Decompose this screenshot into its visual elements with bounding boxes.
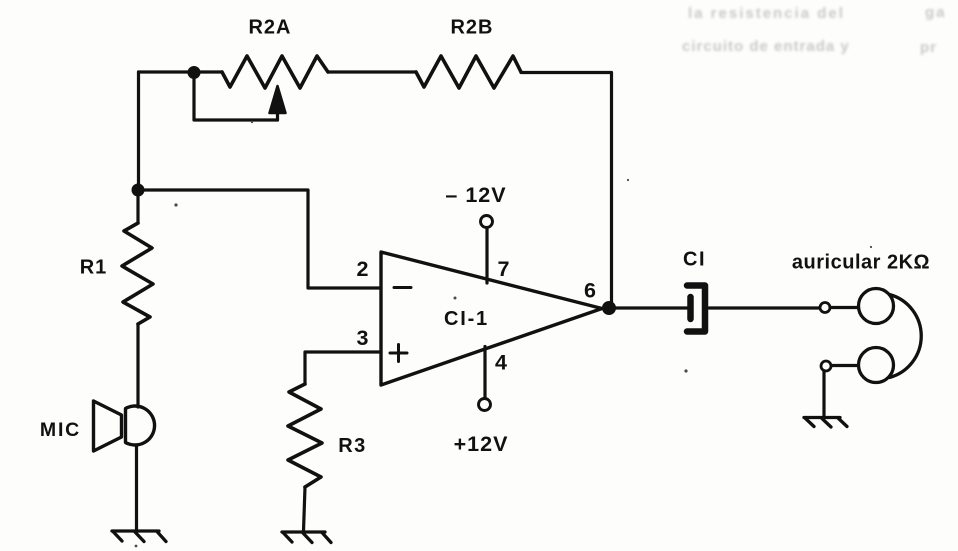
op-amp inverting input minus sign (394, 286, 411, 289)
resistor R2B (416, 56, 521, 88)
op-amp non-inverting input plus sign (390, 345, 407, 362)
resistor R1 (122, 223, 153, 324)
R2A wiper arrow (270, 86, 286, 120)
svg-text:7: 7 (498, 257, 510, 281)
svg-text:3: 3 (357, 326, 369, 350)
wire: terminal down to ground (822, 371, 825, 418)
op-amp CI-1 triangle (381, 252, 602, 385)
svg-text:R2B: R2B (450, 17, 493, 39)
resistor R3 (288, 384, 322, 487)
svg-text:la resistencia del: la resistencia del (688, 5, 845, 22)
svg-text:ga: ga (925, 4, 947, 21)
wire: CI to headphone jack terminal (709, 306, 820, 309)
wire: pin 3 stub, left and down to R3 top (305, 352, 381, 384)
potentiometer R2A resistor body (222, 56, 328, 88)
wire: node A down to R1 top (136, 190, 139, 223)
svg-text:2: 2 (357, 257, 369, 281)
capacitor CI: curved right plate (bracket) (687, 286, 705, 332)
ground (below R3) (282, 532, 331, 543)
svg-text:pr: pr (920, 39, 937, 56)
wire: top feedback horizontal, node to R2A left terminal (139, 70, 223, 73)
wire: bottom earpiece to terminal (831, 364, 858, 367)
node A junction dot (R1 top / R2A net / pin 2 net) (132, 184, 145, 197)
wire: R2B right to top-right corner, down to output node 6 (521, 73, 612, 309)
svg-text:4: 4 (495, 351, 507, 375)
capacitor CI: straight left plate (687, 297, 694, 319)
wire: R2A wiper down and left to junction (194, 76, 278, 120)
wire: pin 4 to +12V terminal (483, 347, 486, 399)
ground (below MIC) (112, 531, 166, 542)
wire: terminal to top earpiece (830, 306, 858, 309)
wire: between R2A and R2B (328, 70, 416, 73)
svg-text:R3: R3 (338, 435, 367, 457)
wire: pin 7 to -12V terminal (485, 228, 488, 284)
wire: node 6 to capacitor CI (609, 306, 687, 309)
wire: node A right, down, to pin 2 stub (138, 190, 381, 288)
terminal circle: headphone - lead (821, 361, 831, 371)
svg-text:6: 6 (584, 279, 596, 303)
svg-text:– 12V: – 12V (445, 183, 506, 207)
terminal circle: headphone + lead (820, 303, 830, 313)
headphone headband arc (890, 295, 922, 378)
wire: R1 bottom to MIC capsule (136, 324, 139, 407)
node 6: output junction dot (602, 301, 616, 315)
svg-text:R2A: R2A (248, 17, 291, 39)
headphone bottom earpiece (859, 348, 894, 383)
junction dot: R2A left terminal / wiper tie point (188, 66, 201, 79)
svg-text:CI-1: CI-1 (444, 308, 489, 330)
wire: MIC bottom to ground (135, 445, 138, 531)
svg-text:+12V: +12V (454, 432, 509, 456)
svg-text:auricular 2KΩ: auricular 2KΩ (792, 252, 930, 274)
svg-text:circuito de entrada y: circuito de entrada y (682, 38, 850, 55)
ground (headphone) (804, 418, 847, 428)
+12V supply terminal circle (479, 399, 491, 411)
-12V supply terminal circle (481, 216, 493, 228)
wire: input node vertical (top-left corner down to node A) (137, 72, 140, 190)
headphone top earpiece (859, 289, 894, 324)
svg-text:R1: R1 (80, 257, 108, 279)
svg-text:MIC: MIC (40, 419, 81, 441)
wire: R3 bottom to ground (304, 487, 306, 531)
microphone MIC: horn cone (94, 401, 122, 451)
svg-text:CI: CI (683, 249, 706, 271)
microphone MIC: capsule (D shape) (126, 406, 155, 445)
